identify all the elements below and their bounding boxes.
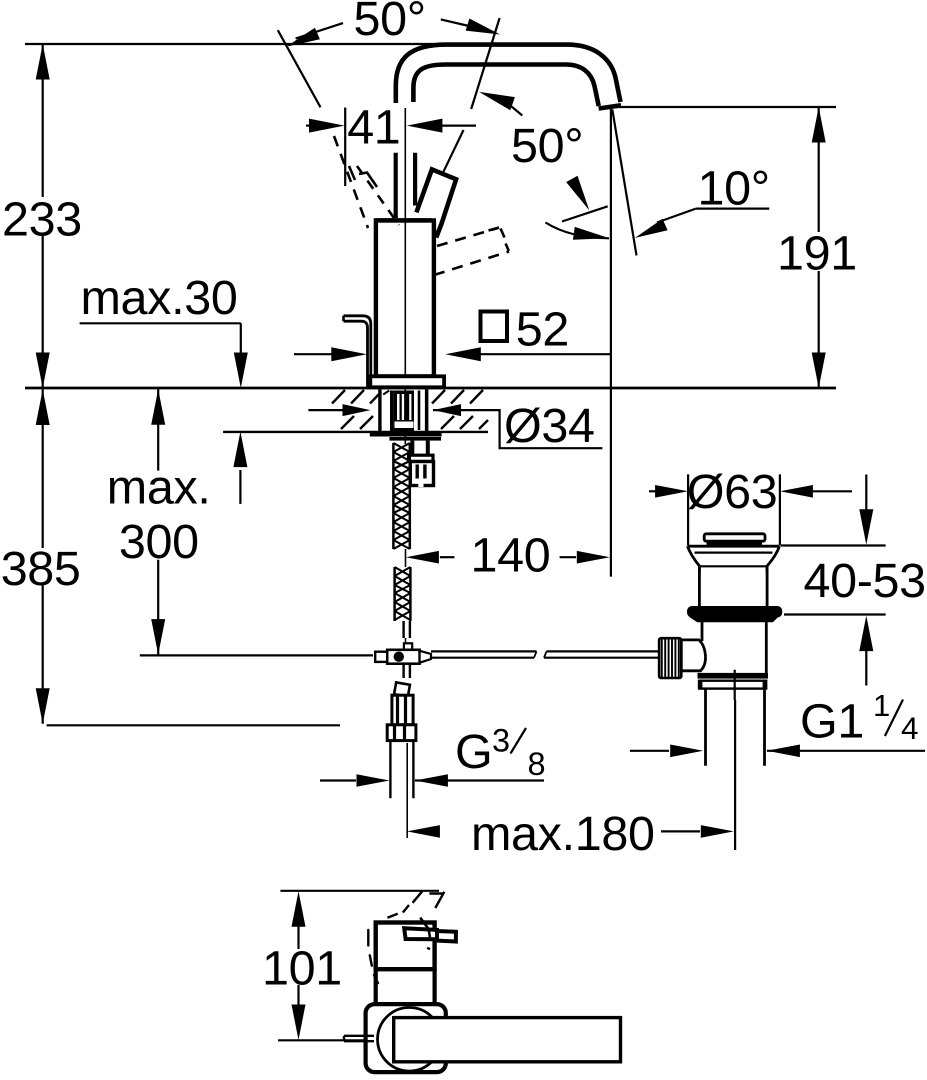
arrow max.30 at counter underside [233, 432, 247, 468]
body centerline [404, 108, 406, 444]
side view pull rod stub [344, 1035, 374, 1037]
tee body [387, 650, 419, 664]
label square 52 symbol [481, 312, 508, 342]
fitting tilted square [394, 682, 410, 696]
leader 10 deg diagonal [657, 209, 696, 223]
svg-text:max.180: max.180 [471, 807, 655, 861]
arrow max300 bottom [151, 619, 165, 655]
O63 extension line right [779, 474, 781, 545]
arrow 52 right [445, 347, 481, 361]
spout outer profile [396, 45, 621, 103]
191 dim line upper [818, 107, 820, 232]
arrow 40-53 bottom [859, 616, 873, 652]
G3/8 leader underline [415, 779, 544, 781]
svg-text:385: 385 [1, 542, 81, 596]
arrow at arc end to vertical line [573, 227, 610, 240]
arrow O34 right [433, 404, 461, 416]
hose braided segment upper [392, 443, 395, 549]
pull rod knob hook [344, 316, 371, 387]
svg-text:G1: G1 [800, 695, 864, 749]
arrow G3/8 left [357, 774, 390, 787]
arrow max180 right [701, 825, 734, 838]
drain body shoulder [698, 673, 769, 679]
svg-text:8: 8 [528, 746, 546, 782]
handle lever (solid position) [416, 169, 456, 223]
svg-text:191: 191 [777, 227, 857, 281]
233 dim line upper [42, 44, 44, 197]
shank thread column [390, 391, 394, 432]
counter cross-section hatching [332, 390, 488, 429]
leader right of top 50 [441, 19, 469, 26]
drain tailpipe [704, 689, 707, 766]
leader from 50 right label [506, 102, 523, 116]
drain o-ring seal [687, 606, 782, 618]
check valve fitting neck [410, 441, 414, 456]
G1-1/4 leader underline [767, 750, 925, 752]
drain flange lip right [767, 546, 779, 573]
140 dim line right [560, 556, 576, 558]
fitting nut lower wide [387, 725, 416, 741]
max300 dim line lower [157, 560, 159, 655]
side view dashed handle edge crossing lever [420, 918, 428, 929]
hose centerline through break [405, 549, 407, 567]
arrow 140 left [406, 551, 439, 564]
hose braided segment lower [393, 567, 396, 621]
handle axis tick line (swivel right 50) [471, 18, 499, 109]
shank column right [418, 391, 421, 431]
arrow 385 top [36, 390, 50, 426]
svg-text:50°: 50° [511, 119, 583, 173]
side view 101 bottom reference line [278, 1039, 409, 1041]
O34 leader [433, 410, 602, 448]
max180 dim line [661, 830, 700, 832]
dashed handle axis tick [562, 206, 608, 221]
drain body walls lower [701, 621, 704, 641]
side view spout horizontal [394, 1018, 621, 1062]
G3/8 dim line left [320, 779, 356, 781]
svg-text:40-53: 40-53 [804, 554, 926, 608]
svg-text:52: 52 [516, 303, 569, 357]
side view escutcheon [366, 1004, 446, 1072]
pull rod knurled knob [659, 638, 681, 678]
spout pipe right edge inside body [413, 153, 417, 206]
side view body lower walls [374, 969, 378, 1040]
supply pipe centerline [406, 743, 408, 838]
tee left stub [375, 652, 387, 662]
shank chamfer line [383, 391, 389, 395]
arrow G1 left [670, 745, 703, 758]
arrow max180 left [407, 825, 440, 838]
body rectangle [376, 220, 434, 376]
svg-text:G: G [455, 725, 492, 779]
tee upper stub [404, 643, 412, 650]
101 dim line upper [297, 925, 299, 949]
spout inner profile [413, 65, 598, 107]
wire 191 top reference line at spout tip [613, 106, 837, 108]
drain push cap [704, 534, 765, 541]
arrow 101 top [292, 891, 306, 927]
385 dim line upper [42, 390, 44, 549]
side view dashed raised handle [413, 891, 445, 908]
arrow 52 left [331, 347, 367, 361]
40-53 upper reference line [781, 544, 886, 546]
52 dim line right [478, 353, 610, 355]
drain flange seam 1 [695, 551, 773, 553]
svg-text:4: 4 [901, 710, 918, 746]
rotation arc 50 right [546, 223, 610, 239]
arrow to right tick [466, 19, 500, 35]
side view lever rear section [404, 928, 437, 939]
svg-text:140: 140 [471, 529, 551, 583]
shank hole left wall [378, 390, 381, 433]
mounting washer plate [370, 432, 442, 436]
arrow 101 bottom [292, 1005, 306, 1041]
leader left of top 50 [296, 23, 343, 38]
dashed handle rotated left - end cap [349, 166, 377, 187]
svg-text:101: 101 [262, 942, 342, 996]
191 dim line lower [818, 271, 820, 388]
check valve collar [409, 455, 434, 461]
41 left extension line [344, 108, 346, 187]
svg-text:max.30: max.30 [81, 271, 238, 325]
40-53 lower dim line [865, 650, 867, 686]
drain flange top [688, 545, 780, 548]
arrow G3/8 right [415, 774, 448, 787]
arrow to left tick [286, 28, 320, 47]
max.30 underside arrow line [239, 470, 241, 504]
dashed handle rotated right - end cap [489, 228, 509, 252]
O63 dim line left [649, 490, 664, 492]
arrow 140 right [577, 551, 610, 564]
drain centerline lower [734, 700, 736, 850]
arrow 385 bottom [36, 688, 50, 724]
tee lower stub [402, 664, 404, 678]
side view lever front section [437, 931, 456, 942]
hose centerline to tee [405, 638, 407, 650]
101 dim line lower [297, 985, 299, 1006]
side view body circle [378, 1008, 442, 1072]
arrow 10 deg [635, 219, 668, 238]
arrow from 50 right label to swivel tick [479, 92, 515, 110]
leader 10 deg underline [696, 208, 770, 210]
side view body block [376, 923, 435, 970]
svg-text:Ø63: Ø63 [687, 465, 778, 519]
drain cap rim [707, 541, 763, 546]
pull rod socket [681, 640, 705, 671]
tee ball [394, 652, 404, 662]
side view 101 top reference line [280, 890, 439, 892]
40-53 upper dim line [865, 475, 867, 512]
385 dim line lower [42, 585, 44, 724]
O63 extension line left [687, 474, 689, 545]
fitting nut upper [392, 695, 413, 725]
arrow max300 top [151, 389, 165, 425]
dashed handle rotated left - inner edge [357, 166, 399, 225]
mounting nut plate [389, 437, 441, 441]
wire top reference line y=44 (233 dim / 50-deg underline) [25, 43, 452, 45]
140 dim line left [440, 556, 455, 558]
dashed handle rotated right - upper edge [437, 228, 498, 246]
tee right cone [420, 651, 431, 663]
drain washer [692, 618, 777, 622]
arrow 41 left [309, 119, 345, 133]
arrow O63 right [780, 485, 813, 498]
shank cartridge block [394, 391, 414, 432]
233 dim line lower [42, 236, 44, 388]
spout tip end face [599, 105, 621, 108]
wire bottom reference line y=725 (hose end level) [47, 724, 340, 726]
supply pipe stub [389, 741, 391, 799]
arrow O34 left [343, 404, 371, 416]
arrow 41 right [407, 119, 443, 133]
41 dim line left segment [306, 124, 311, 126]
drain centerline upper [734, 670, 736, 700]
arrow max.30 at countertop [234, 353, 248, 389]
52 dim line left [294, 353, 333, 355]
pop-up waste rod to drain segment 1 [431, 650, 537, 652]
arrow O63 left [655, 485, 688, 498]
arrow G1 right [767, 745, 800, 758]
max.30 leader underline [80, 322, 241, 324]
drain body walls upper [698, 566, 701, 607]
drain thread undercut groove [700, 681, 767, 689]
10 deg slant line [612, 109, 636, 255]
drain flange seam 2 [701, 565, 767, 567]
svg-text:10°: 10° [698, 162, 770, 216]
counter underside line [223, 431, 488, 433]
svg-text:50°: 50° [354, 0, 426, 46]
dashed handle rotated right - lower edge [434, 252, 509, 276]
max.30 drop line [240, 323, 242, 355]
shank hole right wall [425, 390, 429, 433]
arrow 233 bottom [36, 353, 50, 389]
dashed handle rotated left - outer edge [334, 136, 368, 228]
check valve body [410, 462, 433, 486]
max300 dim line upper [157, 389, 159, 470]
wire countertop line y=388 [25, 387, 836, 390]
arrow to handle tick [566, 176, 589, 211]
body top edge redraw [376, 218, 436, 222]
41 dim line right segment [441, 124, 476, 126]
solid handle axis tick [443, 130, 464, 173]
svg-text:3: 3 [492, 723, 510, 759]
drain flange lip left [688, 546, 700, 573]
arrow 191 top [812, 107, 826, 143]
O63 dim line right [813, 490, 852, 492]
spout pipe left edge inside body [394, 153, 398, 218]
arrow 233 top [36, 44, 50, 80]
svg-text:1: 1 [873, 688, 890, 723]
pop-up waste rod to drain segment 2 [547, 650, 661, 652]
svg-text:41: 41 [347, 101, 400, 155]
handle axis tick line left (swivel left 50) [278, 30, 321, 107]
G1-1/4 dim line left [630, 750, 669, 752]
hose lower tube [402, 621, 404, 638]
wire hose-connection level reference line [140, 654, 373, 656]
svg-text:Ø34: Ø34 [504, 399, 595, 453]
arrow 191 bottom [812, 353, 826, 389]
vertical reference line from spout tip [610, 107, 612, 577]
base plate escutcheon [369, 376, 444, 387]
40-53 lower reference line [784, 613, 886, 615]
arrow 40-53 top [859, 509, 873, 545]
